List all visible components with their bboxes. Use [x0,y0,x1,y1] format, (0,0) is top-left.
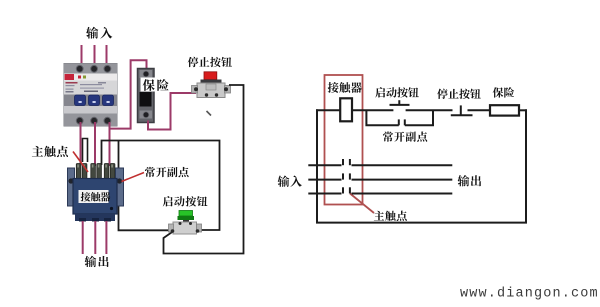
schematic label NO aux contact [383,131,427,141]
contactor KM [68,164,124,222]
wire breaker to contactor phase B [94,122,96,166]
wire coil to start button [352,109,393,111]
wire jumper loop on contactor terminals [83,139,88,163]
wire input L1 [81,45,83,64]
schematic: fuse symbol [490,105,519,115]
wire fuse to stop button (magenta) [148,93,196,130]
wire contactor top to start button right (black loop) [102,141,220,231]
fuse holder FU [138,69,155,123]
svg-text:www.diangon.com: www.diangon.com [460,287,599,302]
schematic: stop pushbutton (NC) [451,105,473,115]
label output (bottom) [85,256,109,267]
wire input L3 [106,45,108,64]
start button SB2 (green pushbutton) [169,211,202,235]
label stop button (top) [188,57,232,67]
wire contactor aux to start button left (black) [119,141,175,231]
wire start to stop button [406,109,453,111]
schematic: right rail [525,109,527,222]
label contactor (on device) [81,192,111,202]
schematic: left rail [316,109,318,222]
wire stop button right down to bottom loop (black) [164,85,244,254]
schematic: contactor coil KM [340,98,352,121]
schematic label input [278,176,302,187]
schematic: start pushbutton (NO) [390,100,410,105]
circuit breaker QF (3-pole MCB) [64,64,117,127]
schematic label main contacts [374,211,407,221]
schematic: bottom rail [316,222,527,224]
leader line main contacts [73,152,88,173]
wire stop to fuse [468,109,491,111]
label NO aux contact + leader [145,167,189,177]
schematic: control line left segment [316,109,340,111]
label main contacts (zhuchudian) + leader [32,146,68,157]
schematic: red arrow to main contact label [350,194,374,214]
schematic: red highlight rectangle around contactor column [325,75,363,205]
schematic label stop button [437,89,481,99]
wire fuse to right rail [519,109,527,111]
wire input L2 [94,45,96,64]
label start button [163,196,208,206]
schematic: NO aux contact branch (parallel) [366,110,433,125]
schematic: main contact phase 2 [308,173,452,179]
schematic label output [458,175,482,186]
label input (top) [86,27,112,39]
label fuse (baoxian) [141,78,171,92]
schematic label fuse [493,87,514,97]
wire output phase A [82,221,84,254]
schematic label contactor [328,82,362,93]
wire output phase B [94,221,96,254]
wire breaker to contactor phase C [109,122,111,166]
schematic: main contact phase 1 [308,159,452,165]
schematic: main contact phase 3 [308,187,452,193]
wire output phase C [105,221,107,254]
leader line NO aux contact [122,173,145,182]
wire breaker to contactor phase A [80,122,82,166]
wire breaker to fuse (magenta loop) [110,60,147,128]
schematic label start button [375,87,418,97]
stop button SB1 (red pushbutton) [192,72,231,98]
stray tick mark [207,111,212,116]
